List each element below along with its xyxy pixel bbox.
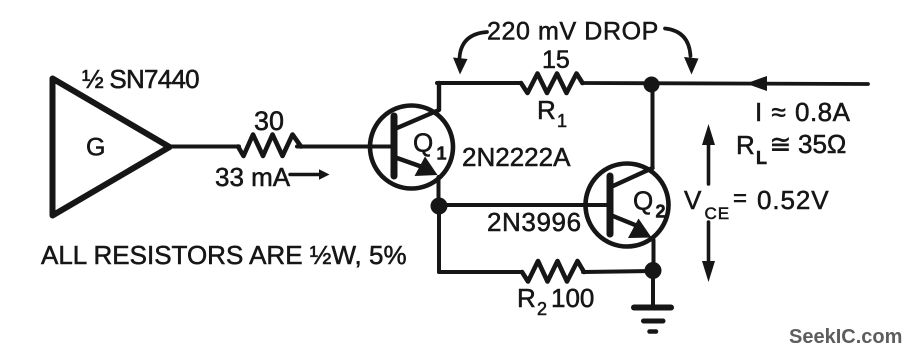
svg-text:Q: Q (413, 128, 433, 158)
top rail (437, 81, 521, 85)
resistor R (30) zigzag (238, 135, 301, 157)
svg-text:2: 2 (537, 299, 547, 319)
arrowhead on top rail (current in) (746, 76, 767, 91)
Q2 collector diagonal (613, 168, 653, 186)
gate U1 (1/2 SN7440) triangle (53, 79, 170, 216)
wire: gate output to resistor 30 (169, 145, 239, 149)
svg-text:30: 30 (254, 106, 284, 136)
ground bar 3 (650, 329, 657, 334)
svg-text:35Ω: 35Ω (798, 129, 846, 159)
svg-text:L: L (756, 148, 767, 168)
svg-text:1: 1 (557, 111, 567, 131)
measure arrow up (VCE) (707, 138, 711, 184)
curved arrow right (220 mV DROP) (665, 29, 691, 57)
svg-text:0.8A: 0.8A (795, 97, 851, 127)
arrow: 33 mA current direction (290, 169, 330, 179)
bottom rail left segment (439, 270, 522, 274)
svg-text:R: R (537, 95, 556, 125)
svg-text:G: G (86, 134, 105, 162)
svg-text:220 mV DROP: 220 mV DROP (487, 18, 659, 46)
svg-text:I: I (755, 97, 762, 127)
wire: resistor 30 to Q1 base (297, 145, 392, 149)
svg-text:=: = (733, 185, 747, 212)
wire: Q1 emitter node to Q2 base (439, 203, 608, 207)
svg-text:ALL RESISTORS ARE ½W, 5%: ALL RESISTORS ARE ½W, 5% (41, 240, 407, 270)
svg-text:R: R (517, 283, 536, 313)
junction node dot (top) (644, 77, 660, 93)
junction node dot (bottom) (645, 262, 662, 279)
ground bar 1 (634, 305, 671, 311)
Q2 emitter vertical to bottom node (652, 240, 656, 270)
Q1 emitter arrowhead (415, 157, 438, 177)
bottom rail right segment (583, 271, 653, 272)
svg-text:V: V (684, 185, 702, 215)
svg-text:33 mA: 33 mA (215, 162, 291, 192)
ground stem (651, 270, 655, 305)
Q1 collector (diagonal + vertical to top rail) (397, 83, 439, 128)
Q1 emitter vertical wire to node (437, 177, 441, 206)
svg-text:≈: ≈ (772, 97, 786, 127)
svg-text:2N3996: 2N3996 (487, 207, 582, 237)
svg-text:½ SN7440: ½ SN7440 (82, 64, 199, 94)
Q2 base bar (607, 176, 614, 234)
resistor R2 (100) zigzag (522, 261, 584, 282)
svg-text:R: R (736, 130, 755, 160)
Q2 emitter diagonal (613, 216, 640, 227)
svg-text:1: 1 (437, 144, 447, 164)
transistor Q1 circle (370, 106, 453, 189)
svg-text:SeekIC.com: SeekIC.com (789, 326, 902, 348)
svg-text:2N2222A: 2N2222A (462, 142, 571, 172)
top rail right segment (582, 83, 868, 84)
Q1 emitter diagonal (397, 158, 428, 169)
curved arrow left (220 mV DROP) (460, 32, 488, 58)
wire: node down to bottom rail (437, 206, 441, 272)
resistor R1 (15) zigzag (521, 74, 583, 94)
svg-text:CE: CE (705, 204, 731, 223)
svg-text:2: 2 (656, 202, 666, 222)
ground bar 2 (644, 319, 664, 324)
svg-text:Q: Q (633, 186, 653, 216)
Q1 base bar (391, 116, 398, 176)
transistor Q2 circle (586, 164, 669, 247)
svg-text:100: 100 (551, 283, 594, 313)
Q2 emitter arrowhead (628, 219, 652, 239)
junction node dot (Q1 emitter) (431, 198, 448, 215)
svg-text:≅: ≅ (770, 129, 792, 159)
svg-text:0.52V: 0.52V (757, 185, 829, 215)
svg-text:15: 15 (542, 46, 570, 74)
measure arrow down (VCE) (707, 222, 711, 266)
wire: top node down to Q2 collector (651, 85, 655, 168)
